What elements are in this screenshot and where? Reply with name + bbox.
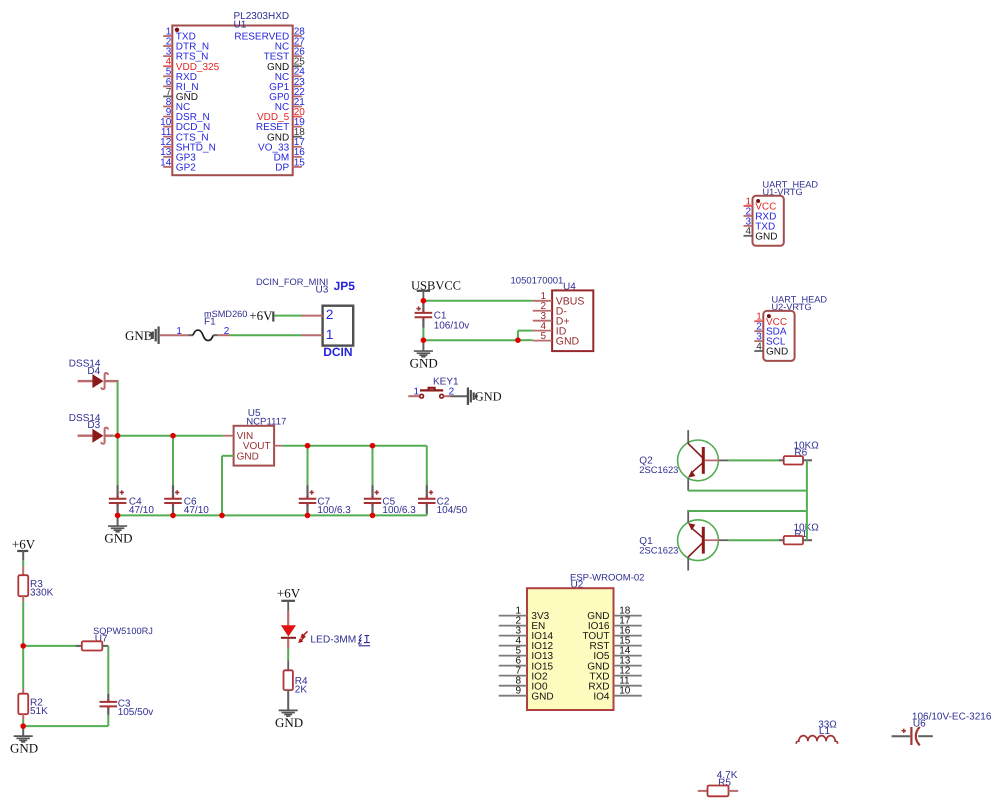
svg-text:+6V: +6V: [249, 308, 273, 323]
header U2-VRTG origin dot: [767, 314, 771, 318]
U1 pin 13 (GP3): [160, 147, 196, 163]
U4 pin 1 (VBUS): [533, 291, 585, 308]
U2 pin 2 (EN): [499, 616, 546, 633]
U1 pin 22 (GP0): [269, 87, 305, 103]
svg-text:GND: GND: [10, 741, 38, 756]
junction rail (U5 gnd): [219, 513, 225, 519]
wire C1 to ground symbol: [422, 340, 424, 350]
junction rail (C7): [305, 513, 311, 519]
wire node to R2: [22, 646, 24, 694]
wire branch to U4 pin 5 (GND): [518, 339, 533, 341]
U2 pin 10 (IO4): [593, 686, 641, 703]
svg-text:GND: GND: [275, 715, 303, 730]
regulator U5 body: [234, 426, 275, 466]
U2 pin 4 (IO12): [499, 636, 554, 653]
ground (C1): [414, 350, 433, 352]
svg-text:LED-3MM: LED-3MM: [310, 634, 356, 645]
U1 pin 11 (CTS_N): [161, 127, 209, 143]
svg-text:GP2: GP2: [176, 163, 196, 174]
junction node VOUT (C5): [370, 443, 376, 449]
U2 pin 7 (IO2): [499, 666, 548, 683]
pushbutton KEY1: [408, 388, 450, 398]
U2 pin 16 (TOUT): [582, 626, 641, 643]
U1 pin 25 (GND): [267, 57, 305, 73]
U1 pin 14 (GP2): [160, 157, 196, 173]
svg-text:14: 14: [160, 157, 172, 168]
junction node VIN (C6): [170, 433, 176, 439]
U1-VRTG pin 3 (TXD): [744, 216, 776, 232]
svg-text:47/10: 47/10: [184, 505, 209, 516]
capacitor C4: [109, 436, 127, 516]
wire Q1 base to R1: [728, 539, 779, 541]
connector JP5 body: [323, 306, 354, 346]
diode D3: [78, 428, 114, 444]
capacitor C6: [164, 436, 182, 516]
wire USBVCC down to node: [422, 291, 424, 301]
U4 pin 4 (ID): [533, 321, 567, 338]
U1 pin 27 (NC): [275, 36, 306, 52]
header U2-VRTG body: [763, 311, 794, 361]
resistor R2: [18, 694, 28, 715]
U1 pin 23 (GP1): [269, 77, 305, 93]
transistor Q2: [678, 430, 729, 491]
wire R3 to node: [22, 596, 24, 646]
svg-text:KEY1: KEY1: [433, 377, 459, 388]
ground flag (F1): [158, 326, 160, 344]
U1 pin 5 (RXD): [163, 67, 197, 83]
power flag +6V (JP5): [249, 308, 273, 323]
svg-text:GND: GND: [104, 530, 132, 545]
U1 pin 1 (TXD): [163, 26, 196, 42]
wire F1 to JP5 pin 1: [230, 334, 323, 336]
wire U5 GND down to rail: [221, 456, 223, 516]
U1 pin 18 (GND): [267, 127, 305, 143]
LED emission arrows: [298, 631, 307, 643]
U1 pin 8 (NC): [163, 97, 190, 113]
U5 pin VOUT: [243, 441, 282, 452]
ground (rail): [108, 525, 127, 527]
U1 pin 15 (DP): [275, 157, 305, 173]
junction node VOUT (C7): [305, 443, 311, 449]
U2 pin 14 (IO5): [593, 646, 641, 663]
U1 pin 19 (RESET): [256, 117, 305, 133]
wire U7 to C3: [107, 646, 109, 694]
connector U4 body: [552, 290, 593, 351]
module U2 body: [527, 588, 614, 710]
U2 pin 8 (IO0): [499, 676, 548, 693]
U1 pin 21 (NC): [275, 97, 306, 113]
svg-text:4: 4: [745, 226, 751, 237]
svg-text:U1: U1: [234, 20, 247, 31]
svg-text:2: 2: [326, 307, 334, 322]
IC U1 PL2303HXD body: [172, 26, 292, 176]
junction rail (C6): [170, 513, 176, 519]
ground flag (KEY1): [467, 387, 469, 405]
svg-text:105/50v: 105/50v: [118, 707, 154, 718]
wire VBUS node to U4 pin 1: [423, 300, 532, 302]
svg-text:9: 9: [515, 686, 521, 697]
fuse F1: [160, 330, 230, 341]
U2 pin 17 (IO16): [588, 616, 642, 633]
svg-text:2K: 2K: [295, 685, 308, 696]
svg-text:5: 5: [540, 331, 546, 342]
wire R2 to gnd node: [22, 714, 24, 726]
U2 pin 15 (RST): [590, 636, 642, 653]
U5 pin VIN: [223, 431, 253, 442]
LED D? LED-3MM: [281, 625, 296, 648]
U1 pin 10 (DCD_N): [160, 117, 210, 133]
svg-text:GND: GND: [531, 691, 553, 702]
U2-VRTG pin 4 (GND): [754, 341, 788, 357]
wire branch to U4 pin 4 (ID): [518, 331, 533, 341]
svg-text:+6V: +6V: [277, 586, 301, 601]
capacitor C7: [299, 446, 317, 516]
resistor R3: [18, 575, 28, 596]
U2 pin 11 (RXD): [588, 676, 641, 693]
U1 pin 16 (DM): [274, 147, 306, 163]
header U1-VRTG body: [753, 196, 784, 246]
svg-text:DP: DP: [275, 163, 289, 174]
junction rail (C5): [370, 513, 376, 519]
wire D4 cathode down to VIN rail: [117, 381, 119, 436]
svg-text:330K: 330K: [30, 588, 54, 599]
junction node VBUS: [421, 298, 427, 304]
power flag USBVCC: [417, 290, 430, 292]
svg-text:D3: D3: [87, 420, 100, 431]
svg-text:IO4: IO4: [593, 691, 610, 702]
inductor L1: [796, 736, 837, 744]
U2-VRTG pin 2 (SDA): [754, 322, 787, 338]
svg-text:GND: GND: [475, 390, 502, 404]
wire ground rail: [118, 514, 427, 516]
wire D3 to U5 VIN: [113, 435, 223, 437]
U1 pin 12 (SHTD_N): [160, 137, 216, 153]
U1 pin 28 (RESERVED): [234, 26, 305, 42]
svg-text:51K: 51K: [30, 706, 48, 717]
wire C3 to gnd node: [23, 725, 108, 727]
U2-VRTG pin 1 (VCC): [754, 312, 787, 328]
svg-text:DCIN: DCIN: [323, 345, 352, 359]
U4 pin 2 (D-): [533, 301, 568, 318]
U1 pin 17 (VO_33): [258, 137, 305, 153]
junction rail (C4/gnd): [115, 513, 121, 519]
svg-text:1: 1: [326, 327, 334, 342]
wire +6V to LED: [287, 601, 289, 626]
U1 pin 6 (RI_N): [163, 77, 198, 93]
U1 pin 3 (RTS_N): [163, 47, 208, 63]
U1 pin-1 origin dot: [175, 28, 179, 32]
junction node gnd (R2): [20, 723, 26, 729]
U2 pin 5 (IO13): [499, 646, 554, 663]
svg-text:GND: GND: [556, 335, 580, 347]
U2 pin 13 (GND): [587, 656, 642, 673]
power flag +6V (LED): [277, 586, 301, 601]
wire Q2 base to R6: [728, 459, 779, 461]
svg-text:F1: F1: [204, 317, 216, 328]
diode D4: [78, 373, 119, 389]
resistor R4: [284, 670, 293, 690]
U1 pin 24 (NC): [275, 67, 306, 83]
junction node divider: [20, 643, 26, 649]
wire GND node to U4: [423, 339, 518, 341]
svg-text:2SC1623: 2SC1623: [639, 464, 678, 475]
wire rail to ground symbol: [117, 515, 119, 525]
power flag +6V (R3): [12, 536, 36, 551]
svg-text:15: 15: [294, 157, 306, 168]
U1 pin 7 (GND): [163, 87, 198, 103]
U1-VRTG pin 4 (GND): [744, 226, 778, 242]
wire node to ground symbol: [22, 726, 24, 736]
U4 pin 5 (GND): [533, 331, 580, 348]
capacitor U6: [892, 727, 933, 745]
resistor R1: [779, 536, 812, 544]
junction node GND (C1): [421, 337, 427, 343]
wire KEY1 to ground flag: [451, 395, 468, 397]
U1 pin 4 (VDD_325): [163, 57, 219, 73]
svg-text:100/6.3: 100/6.3: [317, 505, 351, 516]
resistor R5: [698, 786, 738, 797]
svg-text:GND: GND: [237, 451, 259, 462]
svg-text:104/50: 104/50: [437, 505, 468, 516]
junction node U4 gnd branch: [515, 337, 521, 343]
svg-text:GND: GND: [410, 355, 438, 370]
svg-text:+6V: +6V: [12, 536, 36, 551]
svg-text:2SC1623: 2SC1623: [639, 545, 678, 556]
U2 pin 6 (IO15): [499, 656, 554, 673]
capacitor C5: [364, 446, 382, 516]
wire divider node to U7: [23, 645, 76, 647]
U1 pin 2 (DTR_N): [163, 36, 209, 52]
LED label LED-3MM(hong): [310, 634, 370, 646]
svg-text:47/10: 47/10: [129, 505, 154, 516]
capacitor C3: [100, 694, 118, 726]
U2-VRTG pin 3 (SCL): [754, 331, 786, 347]
U2 pin 9 (GND): [499, 686, 554, 703]
U1-VRTG pin 2 (RXD): [744, 206, 777, 222]
resistor R6: [779, 456, 812, 464]
wire +6V to JP5 pin 2: [274, 315, 322, 317]
wire R6 to R1 vertical: [806, 460, 808, 540]
wire R4 to ground: [287, 690, 289, 710]
U2 pin 12 (TXD): [590, 666, 642, 683]
capacitor C2: [418, 446, 436, 516]
header U1-VRTG origin dot: [756, 199, 760, 203]
svg-text:JP5: JP5: [334, 279, 356, 293]
svg-text:U3: U3: [316, 285, 329, 296]
U1-VRTG pin 1 (VCC): [744, 196, 777, 212]
svg-text:4: 4: [756, 341, 762, 352]
U2 pin 18 (GND): [587, 606, 642, 623]
U2 pin 1 (3V3): [499, 606, 550, 623]
svg-text:GND: GND: [766, 347, 788, 358]
wire +6V to R3: [22, 551, 24, 575]
capacitor C1: [415, 301, 433, 341]
resistor U7: [76, 641, 109, 650]
wire Q1 collector cross: [688, 510, 807, 512]
svg-text:1050170001: 1050170001: [511, 276, 564, 287]
svg-text:GND: GND: [755, 231, 777, 242]
U1 pin 9 (DSR_N): [163, 107, 210, 123]
svg-text:100/6.3: 100/6.3: [382, 505, 416, 516]
ground (R4): [279, 709, 298, 711]
svg-text:106/10v: 106/10v: [434, 321, 470, 332]
U1 pin 20 (VDD_5): [257, 107, 305, 123]
wire Q2 emitter cross: [688, 490, 807, 492]
U1 pin 26 (TEST): [264, 47, 306, 63]
junction node VIN (C4): [115, 433, 121, 439]
ground (R2): [14, 735, 33, 737]
wire LED to R4: [287, 649, 289, 671]
U2 pin 3 (IO14): [499, 626, 554, 643]
U4 pin 3 (D+): [533, 311, 570, 328]
transistor Q1: [678, 510, 729, 571]
wire VOUT rail: [282, 445, 427, 447]
U5 pin GND: [222, 451, 259, 462]
svg-text:10: 10: [619, 686, 631, 697]
